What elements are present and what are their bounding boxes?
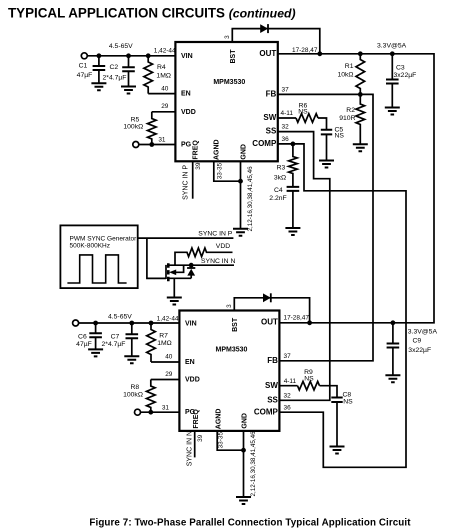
- capacitor C4: [287, 187, 300, 228]
- net label VDD: [216, 243, 230, 250]
- svg-text:AGND: AGND: [213, 139, 220, 160]
- svg-text:VDD: VDD: [181, 109, 196, 116]
- svg-text:TYPICAL APPLICATION CIRCUITS (: TYPICAL APPLICATION CIRCUITS (continued): [8, 6, 296, 21]
- pin label 32 (U2): [284, 393, 292, 400]
- svg-text:4-11: 4-11: [281, 110, 294, 117]
- ground U1 GND: [233, 229, 248, 236]
- svg-text:R4: R4: [157, 64, 166, 71]
- svg-text:40: 40: [161, 85, 169, 92]
- wire Q1 drain / SYNC IN N: [168, 264, 234, 266]
- U2 pin name BST: [232, 317, 239, 332]
- wire R9 to C8: [320, 386, 338, 398]
- svg-text:BST: BST: [230, 49, 237, 64]
- input terminal VIN2: [73, 320, 79, 326]
- ground Q1: [167, 298, 182, 305]
- U2 pin name VDD: [185, 377, 200, 384]
- svg-text:2.2nF: 2.2nF: [269, 195, 286, 202]
- svg-text:29: 29: [165, 371, 173, 378]
- svg-text:C2: C2: [109, 64, 118, 71]
- label 3.3V@5A bottom: [408, 329, 438, 336]
- label R9 NS: [304, 369, 314, 383]
- label R1 10kOhm: [337, 63, 353, 79]
- net label SYNC IN P: [198, 231, 232, 238]
- U1 pin name VIN: [181, 53, 193, 60]
- wire R4 to EN: [148, 93, 175, 95]
- svg-text:36: 36: [284, 405, 292, 412]
- svg-text:33-35: 33-35: [216, 162, 223, 179]
- capacitor C5: [321, 130, 332, 161]
- svg-text:OUT: OUT: [261, 318, 278, 327]
- svg-text:2,12-16,30,38,41,45,46: 2,12-16,30,38,41,45,46: [250, 431, 257, 497]
- svg-text:3: 3: [224, 35, 231, 39]
- svg-text:SS: SS: [266, 127, 277, 136]
- label R7 1MOhm: [157, 332, 172, 347]
- svg-text:PG: PG: [181, 141, 192, 148]
- label R6 NS: [298, 102, 308, 115]
- node C6 junction: [93, 321, 98, 326]
- pin label 17-28,47 (U1): [292, 47, 318, 54]
- svg-text:3: 3: [226, 304, 233, 308]
- diode D2: [263, 293, 271, 302]
- svg-text:2*4.7µF: 2*4.7µF: [102, 341, 126, 348]
- wire VDD1: [152, 111, 176, 113]
- label C1 47uF: [77, 63, 93, 79]
- wire generator to gate: [147, 238, 166, 278]
- svg-text:PWM SYNC Generator: PWM SYNC Generator: [70, 235, 138, 242]
- figure caption: [89, 518, 411, 529]
- ground C6: [88, 349, 103, 356]
- capacitor C2: [122, 56, 135, 87]
- svg-text:SYNC IN N: SYNC IN N: [201, 258, 235, 265]
- pin label 39 (U2): [197, 434, 204, 442]
- op-amp U2 MPM3530 box: [179, 311, 279, 431]
- ground U2 GND: [236, 497, 251, 504]
- U1 pin name AGND: [213, 139, 220, 160]
- U2 pin name SW: [265, 381, 278, 390]
- svg-text:VDD: VDD: [216, 243, 230, 250]
- U1 pin name SS: [266, 127, 277, 136]
- svg-text:VIN: VIN: [181, 53, 193, 60]
- svg-text:4-11: 4-11: [284, 378, 297, 385]
- svg-text:17-28,47: 17-28,47: [284, 315, 310, 322]
- wire FB net: [278, 94, 373, 360]
- node D2-OUT junction: [307, 320, 312, 325]
- wire U1 GND stub: [240, 161, 242, 228]
- node R1 top junction: [358, 51, 363, 56]
- U1 pin name FREQ: [193, 140, 200, 160]
- svg-text:910R: 910R: [339, 115, 355, 122]
- node R5-PG junction: [149, 142, 154, 147]
- U2 pin name FREQ: [193, 409, 200, 429]
- svg-text:NS: NS: [343, 398, 353, 405]
- terminal PG2: [135, 409, 141, 415]
- svg-text:500K-800KHz: 500K-800KHz: [70, 242, 110, 249]
- pin label 36 (U2): [284, 405, 292, 412]
- resistor R8: [147, 380, 156, 413]
- svg-text:32: 32: [282, 124, 290, 131]
- transistor Q1 channel: [167, 263, 170, 281]
- label R2 910R: [339, 107, 355, 122]
- svg-text:C6: C6: [78, 333, 87, 340]
- svg-text:3x22µF: 3x22µF: [408, 347, 431, 354]
- net label SYNC IN N (U2): [186, 431, 193, 466]
- pin label 29: [161, 103, 169, 110]
- svg-text:R8: R8: [130, 384, 139, 391]
- pin label 32 (U1): [282, 124, 290, 131]
- svg-text:10kΩ: 10kΩ: [337, 71, 353, 78]
- wire Q1 source: [168, 277, 191, 279]
- svg-text:EN: EN: [185, 359, 195, 366]
- label C4 2.2nF: [269, 187, 286, 202]
- svg-text:OUT: OUT: [259, 49, 276, 58]
- svg-text:17-28,47: 17-28,47: [292, 47, 318, 54]
- capacitor C9: [387, 323, 400, 376]
- svg-text:GND: GND: [242, 413, 249, 429]
- svg-text:C1: C1: [79, 63, 88, 70]
- svg-text:COMP: COMP: [254, 407, 279, 416]
- ground C4: [285, 228, 300, 235]
- resistor R5: [148, 112, 157, 145]
- svg-text:32: 32: [284, 393, 292, 400]
- svg-text:BST: BST: [232, 317, 239, 332]
- transistor Q1 gate bar: [165, 265, 167, 279]
- U2 pin name COMP: [254, 407, 279, 416]
- ground R2: [353, 144, 368, 151]
- svg-text:VDD: VDD: [185, 377, 200, 384]
- wire R7 to EN: [151, 361, 179, 363]
- svg-text:NS: NS: [304, 375, 314, 382]
- wire PG1: [139, 144, 176, 146]
- U1 pin name PG: [181, 141, 192, 148]
- U2 pin name EN: [185, 359, 195, 366]
- ground C1: [91, 83, 106, 90]
- svg-text:FB: FB: [267, 356, 278, 365]
- pin label 31: [158, 137, 166, 144]
- U1 pin name GND: [240, 144, 247, 160]
- wire Q1 source to ground: [173, 278, 175, 297]
- wire PG2: [141, 411, 180, 413]
- resistor R2: [356, 94, 365, 144]
- wire SW1: [278, 117, 296, 119]
- wire SW2: [279, 385, 297, 387]
- svg-text:FREQ: FREQ: [193, 140, 200, 160]
- svg-text:1MΩ: 1MΩ: [157, 340, 172, 347]
- node C2 junction: [126, 53, 131, 58]
- pin label 40 (U2): [165, 354, 173, 361]
- label C7 2*4.7uF: [102, 333, 126, 348]
- svg-text:R3: R3: [277, 164, 286, 171]
- pin label 3 (BST2): [226, 304, 233, 308]
- svg-text:100kΩ: 100kΩ: [123, 391, 143, 398]
- pin label 39 (U1): [195, 162, 202, 170]
- ground C9: [385, 375, 400, 382]
- svg-text:2,12-16,30,38,41,45,46: 2,12-16,30,38,41,45,46: [247, 166, 254, 232]
- U2 pin name FB: [267, 356, 278, 365]
- svg-text:31: 31: [162, 404, 170, 411]
- svg-text:1MΩ: 1MΩ: [156, 72, 171, 79]
- svg-text:39: 39: [195, 162, 202, 170]
- U2 label MPM3530: [216, 347, 248, 354]
- capacitor C3: [386, 54, 399, 108]
- svg-text:40: 40: [165, 354, 173, 361]
- svg-text:SW: SW: [263, 113, 276, 122]
- pin label 1,42-44: [154, 47, 176, 54]
- svg-text:2*4.7µF: 2*4.7µF: [103, 74, 127, 81]
- pin label 1,42-44 (U2): [157, 316, 179, 323]
- node C1 junction: [97, 53, 102, 58]
- svg-text:SYNC IN P: SYNC IN P: [183, 165, 190, 200]
- U1 pin name VDD: [181, 109, 196, 116]
- svg-text:SYNC IN P: SYNC IN P: [198, 231, 232, 238]
- resistor R9: [298, 381, 320, 390]
- U2 pin name GND: [242, 413, 249, 429]
- transistor Q1 body arrow: [169, 265, 184, 275]
- wire COMP net: [278, 144, 406, 467]
- label C3 3x22uF: [394, 64, 417, 79]
- svg-text:SW: SW: [265, 381, 278, 390]
- svg-text:NS: NS: [335, 133, 345, 140]
- U1 pin name BST: [230, 49, 237, 64]
- svg-text:Figure 7: Two-Phase Parallel C: Figure 7: Two-Phase Parallel Connection …: [89, 518, 411, 529]
- wire OUT1 rail and OUT bus: [278, 54, 434, 323]
- svg-text:3.3V@5A: 3.3V@5A: [408, 329, 438, 336]
- ground C5: [319, 161, 334, 168]
- wire U1 pin39 stub: [192, 161, 194, 198]
- PWM square wave: [67, 255, 126, 283]
- U2 pin name AGND: [216, 409, 223, 430]
- svg-text:C9: C9: [413, 338, 422, 345]
- capacitor C7: [126, 323, 139, 356]
- svg-text:100kΩ: 100kΩ: [123, 124, 143, 131]
- input terminal VIN1: [81, 53, 87, 59]
- wire U2 pin39 stub: [194, 431, 196, 458]
- svg-text:MPM3530: MPM3530: [213, 79, 245, 86]
- ground C2: [121, 87, 136, 94]
- label 3.3V@5A top: [377, 43, 407, 50]
- svg-text:FB: FB: [266, 89, 277, 98]
- PWM sync generator box: [60, 225, 137, 288]
- pin label 40: [161, 85, 169, 92]
- label C5 NS: [335, 126, 345, 139]
- node R4 junction: [146, 53, 151, 58]
- wire SYNC IN P net: [138, 237, 234, 239]
- pin label 37 (U2): [284, 353, 292, 360]
- svg-text:29: 29: [161, 103, 169, 110]
- label 4.5-65V: [109, 43, 133, 50]
- wire U1 AGND stub: [214, 161, 241, 181]
- net label SYNC IN N: [201, 258, 235, 265]
- svg-text:36: 36: [282, 136, 290, 143]
- node R8-PG junction: [148, 410, 153, 415]
- svg-text:3.3V@5A: 3.3V@5A: [377, 43, 407, 50]
- svg-text:R2: R2: [346, 107, 355, 114]
- op-amp U1 MPM3530 box: [175, 42, 277, 161]
- svg-text:3x22µF: 3x22µF: [394, 72, 417, 79]
- label C8 NS: [343, 392, 354, 406]
- svg-text:C7: C7: [111, 333, 120, 340]
- svg-text:3kΩ: 3kΩ: [274, 174, 286, 181]
- U1 label MPM3530: [213, 79, 245, 86]
- capacitor C6: [89, 323, 102, 349]
- svg-text:C4: C4: [274, 187, 283, 194]
- svg-text:33-35: 33-35: [218, 432, 225, 449]
- wire SS net: [278, 132, 330, 401]
- resistor R7: [147, 323, 156, 362]
- node R7 junction: [149, 321, 154, 326]
- svg-text:37: 37: [282, 86, 290, 93]
- ground C8: [330, 447, 345, 454]
- svg-text:4.5-65V: 4.5-65V: [108, 313, 132, 320]
- pin label 29 (U2): [165, 371, 173, 378]
- node Q1 drain junction: [189, 263, 194, 268]
- ground C3: [385, 108, 400, 115]
- U2 pin name SS: [267, 395, 278, 404]
- U2 pin name PG: [185, 409, 196, 416]
- label R5 100kOhm: [123, 116, 143, 130]
- svg-text:37: 37: [284, 353, 292, 360]
- resistor R3: [289, 144, 298, 187]
- svg-text:NS: NS: [298, 109, 308, 116]
- pin label 4-11 (U2): [284, 378, 297, 385]
- svg-text:SS: SS: [267, 395, 278, 404]
- svg-text:4.5-65V: 4.5-65V: [109, 43, 133, 50]
- capacitor C1: [93, 56, 106, 84]
- node D1-OUT junction: [317, 51, 322, 56]
- pin label 3 (BST1): [224, 35, 231, 39]
- svg-text:39: 39: [197, 434, 204, 442]
- PWM generator text: [70, 235, 138, 249]
- node AGND-GND junction U1: [238, 179, 243, 184]
- terminal PG1: [133, 142, 139, 148]
- label C2 2*4.7uF: [103, 64, 127, 82]
- resistor R10 pullup: [175, 248, 233, 265]
- wire VDD2: [151, 379, 180, 381]
- node C7 junction: [129, 321, 134, 326]
- pin label 2,12-16,30,38,41,45,46 (U2): [250, 431, 257, 497]
- svg-text:31: 31: [158, 137, 166, 144]
- U1 pin name SW: [263, 113, 276, 122]
- svg-text:R5: R5: [131, 116, 140, 123]
- svg-text:VIN: VIN: [185, 321, 197, 328]
- pin label 17-28,47 (U2): [284, 315, 310, 322]
- U1 pin name OUT: [259, 49, 276, 58]
- pin label 2,12-16,30,38,41,45,46 (U1): [247, 166, 254, 232]
- svg-text:R7: R7: [159, 332, 168, 339]
- diode Q1 body: [187, 268, 195, 278]
- wire U2 AGND stub: [217, 431, 243, 450]
- pin label 36 (U1): [282, 136, 290, 143]
- node COMP junction: [291, 142, 296, 147]
- svg-text:1,42-44: 1,42-44: [157, 316, 179, 323]
- pin label 33-35 (U1): [216, 162, 223, 179]
- wire U2 GND stub: [243, 431, 245, 497]
- U1 pin name FB: [266, 89, 277, 98]
- resistor R4: [144, 56, 153, 94]
- U1 pin name EN: [181, 91, 191, 98]
- svg-text:COMP: COMP: [252, 139, 277, 148]
- title: [8, 6, 296, 21]
- svg-text:AGND: AGND: [216, 409, 223, 430]
- wire BST1 bootstrap: [232, 29, 319, 54]
- wire VIN2 rail: [79, 322, 180, 324]
- label R4 1MOhm: [156, 64, 171, 79]
- svg-text:FREQ: FREQ: [193, 409, 200, 429]
- svg-text:47µF: 47µF: [76, 341, 92, 348]
- node C3 top junction: [390, 51, 395, 56]
- label C6 47uF: [76, 333, 92, 348]
- wire BST2 bootstrap: [234, 298, 309, 323]
- U1 pin name COMP: [252, 139, 277, 148]
- svg-text:MPM3530: MPM3530: [216, 347, 248, 354]
- net label SYNC IN P (U1): [183, 165, 190, 200]
- svg-text:R1: R1: [345, 63, 354, 70]
- ground C7: [124, 356, 139, 363]
- svg-text:SYNC IN N: SYNC IN N: [186, 431, 193, 466]
- label C9 3x22uF: [408, 338, 431, 354]
- node AGND-GND junction U2: [241, 448, 246, 453]
- U2 pin name VIN: [185, 321, 197, 328]
- capacitor C8: [331, 398, 342, 447]
- pin label 33-35 (U2): [218, 432, 225, 449]
- node C9 junction: [391, 320, 396, 325]
- svg-text:EN: EN: [181, 91, 191, 98]
- label R3 3kOhm: [274, 164, 286, 181]
- wire VIN1 rail: [87, 55, 175, 57]
- svg-text:GND: GND: [240, 144, 247, 160]
- pin label 4-11 (U1): [281, 110, 294, 117]
- svg-text:C3: C3: [396, 64, 405, 71]
- pin label 37 (U1): [282, 86, 290, 93]
- wire R6 to C5: [318, 118, 327, 130]
- svg-text:47µF: 47µF: [77, 72, 93, 79]
- node FB junction: [358, 92, 363, 97]
- diode D1: [260, 24, 268, 33]
- label R8 100kOhm: [123, 384, 143, 398]
- pin label 31 (U2): [162, 404, 170, 411]
- label 4.5-65V bottom: [108, 313, 132, 320]
- U2 pin name OUT: [261, 318, 278, 327]
- resistor R6: [296, 114, 318, 123]
- svg-text:1,42-44: 1,42-44: [154, 47, 176, 54]
- resistor R1: [356, 54, 365, 95]
